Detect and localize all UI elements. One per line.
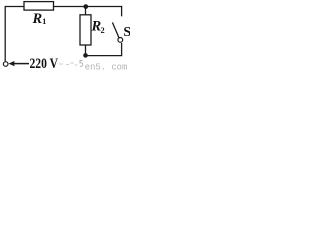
svg-text:2: 2 <box>101 26 105 35</box>
watermark: ghost digit <box>80 61 83 67</box>
svg-text:R: R <box>32 11 43 27</box>
switch S: fixed contact circle <box>118 38 123 43</box>
wire: top side from R1 to right corner <box>54 6 123 8</box>
svg-text:1: 1 <box>42 17 46 26</box>
switch S: blade <box>112 22 119 37</box>
terminal: supply circle <box>3 62 8 67</box>
resistor R2 <box>80 15 91 45</box>
arrow: pointing to supply terminal <box>9 61 30 66</box>
wire: top side from left corner into R1 <box>5 6 24 8</box>
resistor R1 <box>24 2 54 11</box>
svg-text:220 V: 220 V <box>30 56 59 71</box>
label R1 <box>32 11 47 27</box>
wire: bottom side from junction to right corner <box>86 55 123 57</box>
svg-text:S: S <box>123 25 130 40</box>
watermark: faint marks <box>56 59 78 65</box>
svg-text:en5. com: en5. com <box>85 61 128 71</box>
wire: stub from R2 to bottom junction <box>85 45 87 56</box>
label R2 <box>91 19 105 36</box>
node: junction dot on bottom wire <box>83 53 88 58</box>
wire: right vertical from top corner down to switch terminal <box>121 6 123 16</box>
wire: right vertical from bottom corner up to switch contact <box>121 43 123 56</box>
wire: left vertical side <box>4 6 6 61</box>
node: junction dot on top wire <box>83 4 88 9</box>
wire: stub from top junction to R2 <box>85 7 87 16</box>
